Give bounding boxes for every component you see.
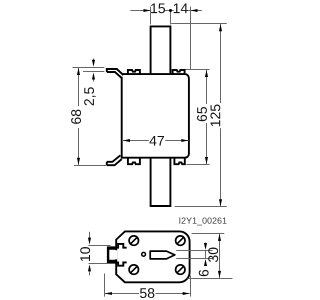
node: drawing identifier I2Y1_00261: [179, 217, 226, 225]
node: dimension label 65: [197, 107, 207, 121]
indicator slot: [150, 251, 175, 259]
screw bottom-left: [129, 265, 138, 274]
grip lug end view: [107, 246, 117, 263]
screw top-right: [176, 236, 185, 245]
node: lug hook top: [114, 244, 127, 248]
wire: arrowhead up for 125: [219, 24, 222, 31]
wire: extension line 58 left: [104, 274, 106, 297]
wire: dimension line 47: [123, 140, 188, 142]
wire: dimension line 15/14: [130, 10, 202, 12]
wire: upper arrow of dim 2,5 pointing down: [93, 59, 95, 61]
top blade contact: [151, 26, 171, 74]
wire: dimension line 125: [220, 24, 222, 206]
node: dimension label 68: [71, 110, 81, 124]
wire: extension line 58 right: [190, 276, 192, 297]
wire: extension line flange bottom for 2,5: [83, 71, 104, 73]
node: contact bump bottom-left: [128, 157, 140, 164]
wire: extension line 30 bottom: [188, 278, 233, 280]
node: indicator pin: [142, 252, 146, 256]
wire: dimension line 30: [219, 234, 221, 278]
node: dimension label 2,5: [84, 87, 96, 105]
wire: slot gap through case wall: [111, 250, 118, 259]
wire: extension line cap top for 65: [185, 69, 210, 71]
wire: lower arrow of dim 6 pointing up: [204, 259, 207, 266]
wire: lower arrow of dim 2,5 pointing up: [93, 80, 95, 82]
wire: extension line cap bottom for 65: [187, 164, 210, 166]
fuse body outline: [122, 74, 189, 158]
wire: extension line at blade top for 125: [171, 23, 227, 25]
wire: arrowhead pointing right at 15: [144, 9, 151, 12]
node: dimension label 6: [199, 270, 209, 276]
node: dimension label 15: [151, 3, 165, 13]
wire: dimension line 68: [78, 68, 80, 165]
wire: extension line 10 top: [89, 245, 111, 247]
wire: arrowhead pointing left at 14: [191, 9, 198, 12]
wire: upper arrow of dim 6 pointing down: [205, 243, 207, 244]
wire: extension line for dim 15 left: [150, 7, 152, 25]
wire: arrowhead down for 125: [219, 199, 222, 206]
wire: extension line at blade bottom for 125: [175, 206, 227, 208]
screw bottom-right: [176, 265, 185, 274]
wire: extension line 6 bottom: [176, 258, 212, 260]
wire: extension line flange top shared by 2,5 and 68: [73, 67, 105, 69]
grip flange bottom-left: [107, 155, 122, 165]
wire: extension line 6 top: [176, 250, 212, 252]
wire: extension line 30 top: [192, 233, 225, 235]
node: contact bump top-right: [173, 70, 185, 74]
bottom view case outline: [116, 231, 189, 282]
node: dimension label 30: [208, 248, 218, 263]
node: dimension label 10: [80, 247, 90, 261]
node: lug hook bottom: [114, 262, 127, 265]
wire: extension line 10 bottom: [89, 263, 110, 265]
node: dimension label 47: [149, 136, 164, 146]
node: contact bump bottom-right: [174, 157, 184, 164]
node: dot marker between 15 and 14: [169, 9, 172, 12]
node: dimension label 58: [140, 288, 154, 298]
node: dimension label 125: [210, 105, 220, 127]
wire: upper arrow of dim 10 pointing down: [89, 232, 91, 238]
wire: dim 6 inner segment: [205, 251, 207, 259]
wire: arrowhead down for 65: [205, 157, 208, 164]
node: dimension label 14: [174, 3, 188, 13]
bottom blade contact: [151, 158, 171, 206]
screw top-left: [129, 236, 138, 245]
node: contact bump top-left: [128, 70, 140, 74]
wire: extension line bottom flange for 68: [74, 165, 106, 167]
wire: arrowhead up for 68: [77, 68, 80, 75]
wire: dimension line 58: [105, 293, 190, 295]
wire: extension line shared between 15 and 14: [170, 12, 172, 25]
wire: arrowhead down for 68: [77, 158, 80, 165]
wire: dimension line 65: [206, 70, 208, 164]
wire: extension line for dim 14 right: [190, 7, 192, 70]
grip flange top-left: [107, 69, 124, 78]
wire: lower arrow of dim 10 pointing up: [89, 272, 91, 276]
wire: arrowhead up for 65: [205, 70, 208, 77]
